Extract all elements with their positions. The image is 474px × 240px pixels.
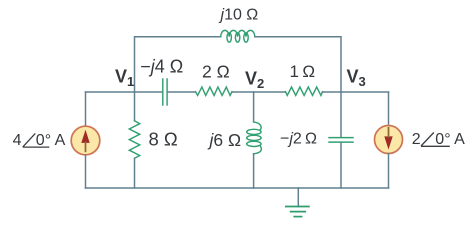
wire V1 vertical to resistor: [134, 92, 136, 121]
wire V3 capacitor to bottom: [340, 143, 342, 188]
ground: [286, 207, 309, 217]
svg-text:1 Ω: 1 Ω: [290, 62, 316, 81]
wire V2 vertical to inductor: [253, 92, 255, 122]
wire V1 resistor to bottom: [134, 158, 136, 188]
wire left vertical top: [85, 92, 87, 126]
wire middle cap to resistor: [168, 91, 196, 93]
capacitor C2 -j2 ohm: [329, 138, 353, 143]
wire middle resistor to V2: [232, 91, 286, 93]
ground stub: [297, 188, 299, 207]
svg-text:2: 2: [412, 131, 421, 148]
wire left vertical bottom: [85, 155, 87, 188]
current source I1: [71, 126, 100, 155]
wire V2 inductor to bottom: [253, 154, 255, 188]
resistor R1 2 ohm: [196, 87, 233, 95]
label 2 angle 0 A: [412, 131, 465, 148]
wire right vertical top: [388, 92, 390, 126]
svg-text:V1: V1: [115, 67, 134, 90]
label 4 angle 0 A: [13, 132, 66, 149]
svg-text:0° A: 0° A: [435, 131, 465, 148]
wire middle left segment: [86, 91, 163, 93]
inductor L1 j10 ohm: [221, 30, 255, 42]
inductor L2 j6 ohm: [247, 122, 262, 154]
svg-text:0° A: 0° A: [36, 132, 66, 149]
svg-text:V3: V3: [347, 67, 366, 90]
svg-text:V2: V2: [245, 69, 264, 92]
svg-text:j6 Ω: j6 Ω: [208, 130, 242, 150]
wire right vertical bottom: [388, 154, 390, 189]
resistor R2 1 ohm: [286, 87, 323, 95]
wire middle V3 to right branch: [341, 91, 389, 93]
capacitor C1 -j4 ohm: [163, 79, 167, 105]
resistor R3 8 ohm: [129, 121, 139, 159]
svg-text:8 Ω: 8 Ω: [149, 128, 178, 149]
svg-text:2 Ω: 2 Ω: [202, 61, 230, 81]
wire V3 vertical to capacitor: [340, 92, 342, 137]
current source I2: [375, 126, 403, 154]
wire middle resistor to V3: [323, 91, 342, 93]
svg-text:4: 4: [13, 132, 22, 149]
wire top from inductor to V3: [255, 37, 341, 92]
wire top from V1 to inductor: [135, 37, 221, 92]
svg-text:−j4 Ω: −j4 Ω: [140, 57, 183, 77]
svg-text:−j2 Ω: −j2 Ω: [280, 131, 317, 148]
svg-text:j10 Ω: j10 Ω: [219, 7, 259, 24]
wire bottom: [86, 187, 389, 189]
